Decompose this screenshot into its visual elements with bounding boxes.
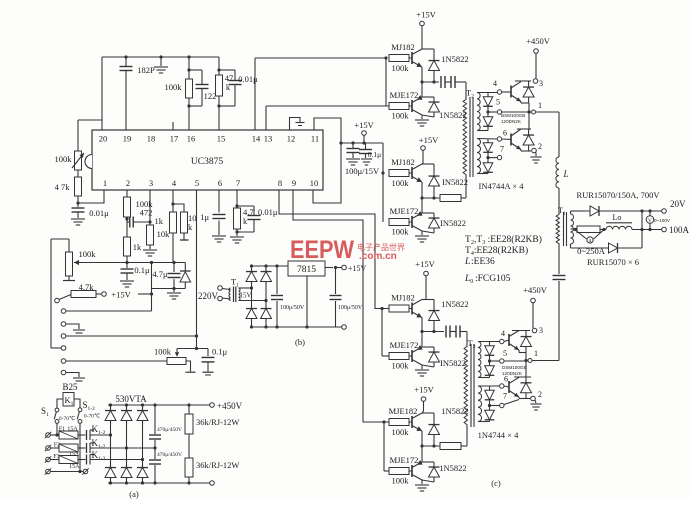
svg-text:+15V: +15V [111, 290, 131, 300]
svg-text:3: 3 [539, 326, 543, 335]
svg-text:9: 9 [292, 178, 296, 188]
svg-text:1N5822: 1N5822 [441, 54, 468, 64]
svg-text:7: 7 [236, 178, 240, 188]
svg-text:RUR15070 × 6: RUR15070 × 6 [587, 257, 639, 267]
svg-text:11: 11 [311, 134, 319, 144]
svg-text:0.1μ: 0.1μ [134, 265, 150, 275]
svg-text:120DN2K: 120DN2K [502, 371, 523, 376]
svg-text:0.1μ: 0.1μ [368, 150, 381, 159]
svg-text:100k: 100k [392, 63, 410, 73]
svg-text:+15V: +15V [415, 259, 435, 269]
svg-text:IN5822: IN5822 [442, 177, 468, 187]
svg-text:MJ182: MJ182 [391, 42, 415, 52]
svg-text:2: 2 [126, 178, 130, 188]
svg-text:7: 7 [500, 145, 504, 154]
svg-text:+15V: +15V [419, 135, 439, 145]
svg-text:0-70℃: 0-70℃ [84, 414, 101, 420]
svg-text:5: 5 [195, 178, 199, 188]
svg-text:100k: 100k [154, 347, 172, 357]
svg-text:220V: 220V [198, 291, 219, 301]
svg-text:+450V: +450V [526, 36, 551, 46]
svg-text:4.7μ: 4.7μ [152, 269, 168, 279]
svg-text:MJE172: MJE172 [390, 455, 419, 465]
svg-text:MJE172: MJE172 [390, 340, 419, 350]
svg-text:20: 20 [99, 134, 108, 144]
svg-text:(c): (c) [491, 478, 501, 488]
svg-text:Lo: Lo [613, 213, 622, 222]
svg-text:100k: 100k [79, 249, 97, 259]
svg-text:13: 13 [264, 134, 273, 144]
svg-text:+450V: +450V [217, 401, 243, 411]
svg-text:3: 3 [539, 79, 543, 88]
svg-text:10: 10 [310, 178, 319, 188]
svg-text::EE36: :EE36 [471, 257, 495, 267]
svg-text:15A: 15A [69, 452, 80, 458]
svg-text:MJE172: MJE172 [390, 206, 419, 216]
svg-text:.com.cn: .com.cn [359, 251, 397, 262]
svg-text:0.1μ: 0.1μ [212, 347, 228, 357]
svg-text:1: 1 [534, 349, 538, 358]
svg-text:15A: 15A [69, 464, 80, 470]
svg-text:V: V [648, 218, 652, 224]
svg-text:530VTA: 530VTA [115, 394, 147, 404]
svg-text:20V: 20V [670, 199, 686, 209]
svg-text:4.7k: 4.7k [79, 282, 95, 292]
svg-text:B25: B25 [62, 382, 78, 392]
svg-text:36k/RJ-12W: 36k/RJ-12W [196, 460, 239, 470]
svg-text:RUR15070/150A, 700V: RUR15070/150A, 700V [576, 190, 660, 200]
svg-text:DSM100GB: DSM100GB [502, 365, 527, 370]
svg-text:15: 15 [217, 134, 226, 144]
svg-text:1N5822: 1N5822 [439, 463, 466, 473]
svg-text:6: 6 [503, 129, 507, 138]
svg-text:IN5822: IN5822 [440, 218, 466, 228]
svg-text:100μ/15V: 100μ/15V [345, 166, 380, 176]
svg-text:EEPW: EEPW [290, 236, 354, 264]
svg-text:15A: 15A [67, 426, 78, 432]
svg-text:470μ/450V: 470μ/450V [157, 452, 182, 458]
svg-text:7: 7 [503, 392, 507, 401]
svg-text:18: 18 [147, 134, 156, 144]
svg-text:L: L [464, 257, 470, 267]
svg-text:3: 3 [149, 178, 153, 188]
svg-text:UC3875: UC3875 [191, 157, 223, 167]
svg-text:100A: 100A [669, 225, 690, 235]
svg-text:36k/RJ-12W: 36k/RJ-12W [196, 417, 239, 427]
svg-text:T4:EE28(R2KB): T4:EE28(R2KB) [465, 245, 528, 257]
svg-text:+15V: +15V [414, 385, 434, 395]
svg-text:F3: F3 [53, 454, 59, 460]
svg-text:MJ182: MJ182 [391, 293, 415, 303]
svg-text:IN5822: IN5822 [440, 358, 466, 368]
svg-text:5: 5 [496, 98, 500, 107]
svg-text:1N5822: 1N5822 [439, 110, 466, 120]
svg-text::FCG105: :FCG105 [475, 274, 511, 284]
svg-text:MJ182: MJ182 [391, 157, 415, 167]
svg-text:6: 6 [218, 178, 222, 188]
svg-text:(a): (a) [129, 489, 139, 499]
svg-text:12: 12 [287, 134, 296, 144]
svg-text:BSM100GB: BSM100GB [501, 113, 525, 118]
svg-text:+450V: +450V [523, 285, 548, 295]
svg-text:1k: 1k [155, 216, 164, 226]
svg-text:4 7k: 4 7k [55, 182, 71, 192]
svg-text:1: 1 [103, 178, 107, 188]
svg-text:5: 5 [503, 349, 507, 358]
svg-text:100μ/50V: 100μ/50V [338, 305, 363, 311]
svg-text:122: 122 [204, 91, 217, 101]
svg-text:MJE172: MJE172 [390, 90, 419, 100]
svg-text:7815: 7815 [297, 265, 316, 275]
svg-text:100k: 100k [392, 111, 410, 121]
svg-text:MJE182: MJE182 [389, 406, 418, 416]
svg-text:16: 16 [187, 134, 196, 144]
svg-text:10k: 10k [157, 229, 171, 239]
svg-text:0.01μ: 0.01μ [89, 208, 109, 218]
svg-text:120DN2K: 120DN2K [501, 119, 522, 124]
svg-text:2: 2 [538, 142, 542, 151]
svg-text:100k: 100k [392, 178, 410, 188]
svg-text:0~100V: 0~100V [654, 218, 671, 223]
svg-text:100k: 100k [392, 227, 410, 237]
svg-text:0.01μ: 0.01μ [258, 207, 278, 217]
svg-text:1N4744 × 4: 1N4744 × 4 [478, 430, 519, 440]
svg-text:14: 14 [252, 134, 261, 144]
svg-text:470μ/450V: 470μ/450V [157, 427, 182, 433]
svg-text:+15V: +15V [348, 264, 367, 273]
svg-text:F1: F1 [59, 426, 65, 432]
svg-text:(b): (b) [295, 337, 305, 347]
svg-text:182P: 182P [137, 65, 155, 75]
svg-text:1k: 1k [133, 242, 142, 252]
svg-text:IN4744A × 4: IN4744A × 4 [479, 181, 525, 191]
svg-text:2: 2 [538, 390, 542, 399]
svg-text:19: 19 [123, 134, 132, 144]
svg-text:1μ: 1μ [200, 212, 209, 222]
svg-text:1N5822: 1N5822 [441, 299, 468, 309]
svg-text:F2: F2 [54, 443, 60, 449]
svg-text:4: 4 [493, 79, 497, 88]
svg-text:0-70℃: 0-70℃ [59, 416, 76, 422]
svg-text:100k: 100k [165, 82, 183, 92]
svg-text:1: 1 [538, 101, 542, 110]
svg-text:15V: 15V [239, 292, 251, 300]
svg-text:A: A [588, 239, 592, 244]
svg-text:+15V: +15V [354, 120, 374, 130]
svg-text:0~250A: 0~250A [577, 246, 606, 256]
svg-text:4: 4 [501, 329, 505, 338]
svg-text:L: L [562, 169, 568, 179]
svg-text:100k: 100k [55, 154, 73, 164]
svg-text:100k: 100k [392, 361, 410, 371]
svg-text:100k: 100k [392, 427, 410, 437]
svg-text:8: 8 [278, 178, 282, 188]
svg-text:+15V: +15V [416, 10, 436, 20]
svg-text:100μ/50V: 100μ/50V [280, 305, 305, 311]
svg-text:17: 17 [170, 134, 179, 144]
svg-text:100k: 100k [392, 476, 410, 486]
